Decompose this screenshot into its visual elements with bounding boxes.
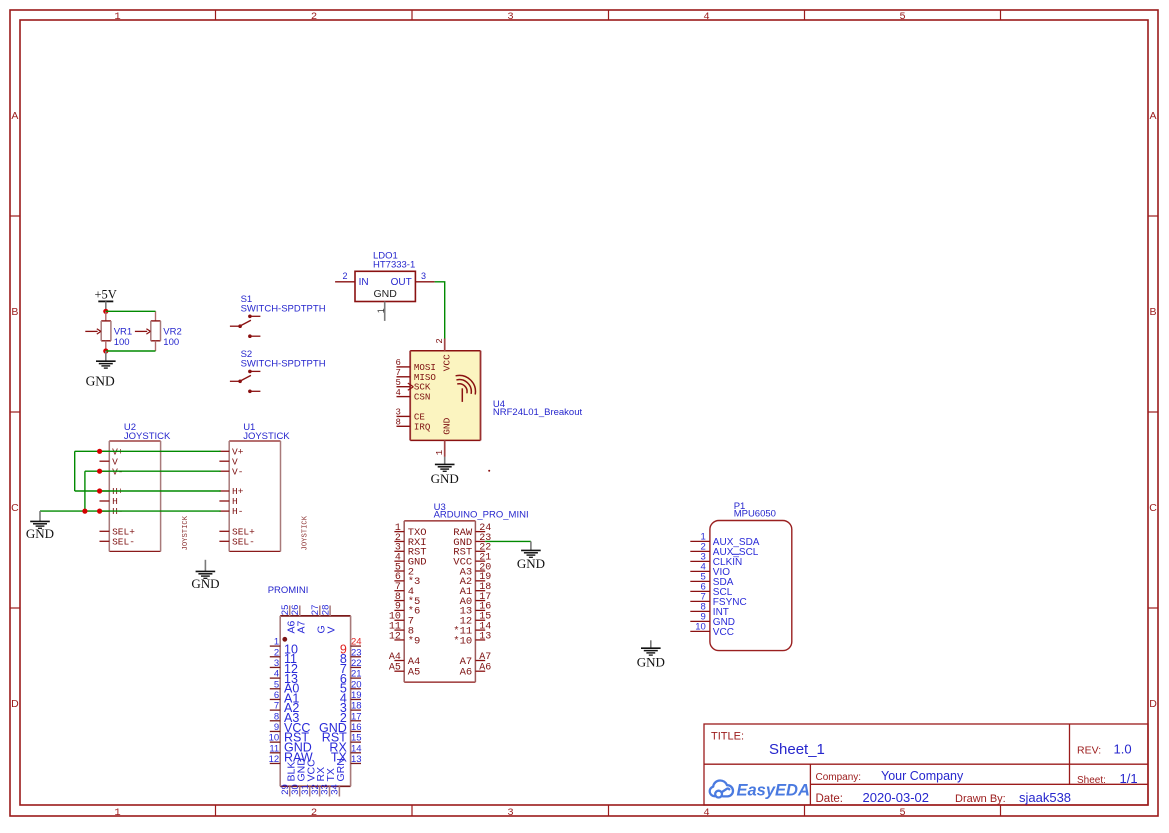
svg-text:V-: V-	[232, 466, 243, 477]
wire VR bottom	[106, 350, 156, 352]
pin 12 RAW (PROMINI left)	[270, 762, 280, 764]
wire LDO out to NRF VCC	[435, 282, 445, 339]
svg-text:14: 14	[351, 743, 362, 754]
pin V- of U2	[100, 470, 110, 472]
pin H of U1	[219, 500, 229, 502]
resistor VR1	[105, 311, 107, 321]
pin 3 12 (PROMINI left)	[270, 666, 280, 668]
svg-text:1.0: 1.0	[1114, 742, 1132, 757]
pin A6 A6 (U3 right)	[475, 670, 485, 672]
pin SEL- of U2	[100, 540, 110, 542]
pin 5 SDA (P1)	[690, 580, 710, 582]
svg-text:IN: IN	[359, 277, 369, 288]
svg-text:SWITCH-SPDTPTH: SWITCH-SPDTPTH	[241, 303, 326, 314]
svg-text:SWITCH-SPDTPTH: SWITCH-SPDTPTH	[241, 359, 326, 370]
svg-text:23: 23	[351, 647, 362, 658]
pin 7 MISO	[397, 376, 411, 378]
IC U4 NRF24L01_Breakout	[410, 351, 480, 441]
svg-text:sjaak538: sjaak538	[1019, 790, 1071, 805]
antenna symbol	[458, 384, 467, 393]
column/row ticks	[215, 10, 217, 20]
svg-text:A5: A5	[408, 667, 421, 679]
pin V+ of U1	[219, 450, 229, 452]
pin SEL+ of U2	[100, 530, 110, 532]
pin 15 RST (PROMINI right)	[351, 741, 361, 743]
wire to ground	[105, 351, 107, 361]
switch S1	[248, 315, 252, 319]
svg-text:*9: *9	[408, 635, 421, 647]
wire net V+	[75, 450, 221, 452]
wire net V-	[85, 470, 221, 472]
svg-text:GND: GND	[374, 288, 398, 300]
pin 18 A1 (U3 right)	[475, 590, 485, 592]
wire U3 pin23 to ground	[485, 540, 531, 542]
node junction VR1 top	[103, 309, 108, 314]
svg-text:4: 4	[395, 388, 400, 398]
pin 2 11 (PROMINI left)	[270, 656, 280, 658]
svg-text:7: 7	[274, 701, 279, 712]
pin 6 A1 (PROMINI left)	[270, 698, 280, 700]
pin V+ of U2	[100, 450, 110, 452]
pin 7 FSYNC (P1)	[690, 600, 710, 602]
svg-text:GND: GND	[191, 576, 219, 591]
svg-text:8: 8	[274, 711, 279, 722]
svg-text:2: 2	[342, 271, 347, 281]
pin SEL+ of U1	[219, 530, 229, 532]
svg-text:5: 5	[899, 807, 905, 819]
pin 6 SCL (P1)	[690, 590, 710, 592]
svg-text:GRN: GRN	[335, 758, 347, 781]
pin 4 GND (U3 left)	[394, 560, 404, 562]
connector P1 body	[710, 521, 792, 651]
wire net H+	[75, 490, 221, 492]
svg-text:13: 13	[351, 754, 362, 765]
switch S2	[248, 370, 252, 374]
pin 33 TX (PROMINI bottom)	[329, 786, 331, 796]
svg-text:3: 3	[274, 658, 279, 669]
pin 23 8 (PROMINI right)	[351, 656, 361, 658]
pin 11 8 (U3 left)	[394, 629, 404, 631]
svg-text:15: 15	[351, 733, 362, 744]
CLKIN overline	[733, 553, 740, 555]
pin 9 GND (P1)	[690, 620, 710, 622]
svg-text:IRQ: IRQ	[414, 421, 431, 432]
clock arrow SCK	[408, 383, 414, 387]
pin 1 GND bottom	[444, 440, 446, 457]
svg-text:2: 2	[435, 338, 445, 343]
svg-text:6: 6	[395, 358, 400, 368]
svg-text:Sheet:: Sheet:	[1077, 775, 1106, 786]
pin 22 7 (PROMINI right)	[351, 666, 361, 668]
svg-text:16: 16	[351, 722, 362, 733]
svg-text:18: 18	[351, 701, 362, 712]
svg-text:GND: GND	[86, 373, 115, 388]
wire net H- / GND	[40, 510, 221, 512]
pin 17 A0 (U3 right)	[475, 600, 485, 602]
pin 1 10 (PROMINI left)	[270, 645, 280, 647]
svg-text:1/1: 1/1	[1120, 771, 1138, 786]
pin 26 A7 (PROMINI top)	[299, 606, 301, 616]
ground	[521, 549, 541, 551]
node junction VR1 bottom	[103, 348, 108, 353]
connector U2 body	[109, 441, 160, 551]
svg-text:Company:: Company:	[816, 772, 862, 783]
svg-text:GND: GND	[442, 417, 453, 434]
pin 10 RST (PROMINI left)	[270, 741, 280, 743]
svg-text:5: 5	[899, 11, 905, 23]
svg-text:VCC: VCC	[713, 627, 734, 638]
pin 8 A3 (PROMINI left)	[270, 720, 280, 722]
svg-text:5: 5	[274, 679, 279, 690]
svg-text:10: 10	[695, 622, 706, 633]
svg-text:20: 20	[351, 679, 362, 690]
svg-text:B: B	[11, 306, 18, 318]
svg-text:2: 2	[274, 647, 279, 658]
pin 31 VCC (PROMINI bottom)	[309, 786, 311, 796]
regulator LDO1	[355, 271, 415, 301]
svg-text:7: 7	[395, 368, 400, 378]
svg-text:100: 100	[163, 337, 179, 348]
pin H- of U2	[100, 510, 110, 512]
pin 2 RXI (U3 left)	[394, 540, 404, 542]
pin 5 A0 (PROMINI left)	[270, 688, 280, 690]
svg-text:A7: A7	[295, 620, 307, 633]
svg-text:10: 10	[269, 733, 280, 744]
pin 9 VCC (PROMINI left)	[270, 730, 280, 732]
svg-text:C: C	[1149, 502, 1157, 514]
svg-text:28: 28	[320, 605, 331, 616]
pin 15 12 (U3 right)	[475, 619, 485, 621]
svg-text:A: A	[11, 110, 18, 122]
svg-text:12: 12	[389, 631, 401, 642]
pin H- of U1	[219, 510, 229, 512]
pin 7 4 (U3 left)	[394, 590, 404, 592]
pin 3 OUT	[415, 281, 434, 283]
pin 20 5 (PROMINI right)	[351, 688, 361, 690]
svg-text:A4: A4	[389, 652, 401, 663]
svg-text:A6: A6	[479, 663, 491, 674]
pin 5 SCK	[397, 386, 411, 388]
pin 32 RX (PROMINI bottom)	[319, 786, 321, 796]
pin 21 VCC (U3 right)	[475, 560, 485, 562]
pin 24 9 (PROMINI right)	[351, 645, 361, 647]
pin 19 A2 (U3 right)	[475, 580, 485, 582]
svg-text:GND: GND	[26, 526, 54, 541]
svg-text:1: 1	[435, 450, 445, 455]
svg-text:2: 2	[311, 11, 317, 23]
ground	[435, 463, 455, 465]
svg-text:SEL-: SEL-	[112, 536, 135, 547]
svg-text:EasyEDA: EasyEDA	[737, 782, 810, 800]
svg-text:A7: A7	[479, 652, 491, 663]
pin 12 *9 (U3 left)	[394, 639, 404, 641]
svg-text:4: 4	[703, 11, 709, 23]
svg-text:PROMINI: PROMINI	[268, 585, 309, 596]
svg-text:D: D	[1149, 698, 1157, 710]
wire to left ground	[39, 511, 41, 521]
pin 4 CSN	[397, 396, 411, 398]
svg-text:OUT: OUT	[391, 277, 412, 288]
pin SEL- of U1	[219, 540, 229, 542]
svg-text:C: C	[11, 502, 19, 514]
svg-text:NRF24L01_Breakout: NRF24L01_Breakout	[493, 407, 583, 418]
pin 29 BLK (PROMINI bottom)	[289, 786, 291, 796]
svg-text:21: 21	[351, 669, 362, 680]
svg-text:22: 22	[351, 658, 362, 669]
svg-text:JOYSTICK: JOYSTICK	[182, 515, 190, 550]
svg-text:17: 17	[351, 711, 362, 722]
pin 18 3 (PROMINI right)	[351, 709, 361, 711]
pin 8 *5 (U3 left)	[394, 600, 404, 602]
svg-text:3: 3	[507, 807, 513, 819]
ground	[196, 570, 216, 572]
svg-text:100: 100	[114, 337, 130, 348]
pin 10 VCC (P1)	[690, 630, 710, 632]
resistor VR2	[155, 311, 157, 321]
pin 10 7 (U3 left)	[394, 619, 404, 621]
svg-text:CSN: CSN	[414, 392, 431, 403]
pin 8 IRQ	[397, 425, 411, 427]
wire vertical V- to H-	[84, 471, 86, 511]
svg-text:1: 1	[274, 637, 279, 648]
pin A7 A7 (U3 right)	[475, 660, 485, 662]
svg-text:5: 5	[395, 378, 400, 388]
stray dot	[488, 470, 490, 472]
svg-text:*10: *10	[453, 635, 472, 647]
svg-text:HT7333-1: HT7333-1	[373, 260, 415, 271]
pin H of U2	[100, 500, 110, 502]
svg-text:Your Company: Your Company	[881, 769, 964, 783]
pin 23 GND (U3 right)	[475, 540, 485, 542]
pin 11 GND (PROMINI left)	[270, 752, 280, 754]
svg-text:1: 1	[114, 807, 120, 819]
pin H+ of U2	[100, 490, 110, 492]
svg-text:H-: H-	[232, 506, 243, 517]
junctions joystick	[97, 449, 102, 454]
svg-text:ARDUINO_PRO_MINI: ARDUINO_PRO_MINI	[434, 510, 529, 521]
connector U1 body	[229, 441, 280, 551]
svg-text:6: 6	[274, 690, 279, 701]
svg-text:D: D	[11, 698, 19, 710]
svg-text:12: 12	[269, 754, 280, 765]
pin 30 GND (PROMINI bottom)	[299, 786, 301, 796]
pin V of U1	[219, 460, 229, 462]
svg-text:4: 4	[703, 807, 709, 819]
pin 13 TX (PROMINI right)	[351, 762, 361, 764]
ground	[30, 520, 50, 522]
svg-text:8: 8	[395, 418, 400, 428]
pin 6 *3 (U3 left)	[394, 580, 404, 582]
svg-text:Drawn By:: Drawn By:	[955, 793, 1006, 805]
pin V of U2	[100, 460, 110, 462]
svg-text:Sheet_1: Sheet_1	[769, 741, 825, 758]
svg-text:11: 11	[269, 743, 279, 754]
pin 24 RAW (U3 right)	[475, 531, 485, 533]
module PROMINI body	[280, 616, 350, 786]
svg-text:B: B	[1149, 306, 1156, 318]
pin A5 A5 (U3 left)	[394, 670, 404, 672]
ground	[96, 360, 116, 362]
pin 25 A6 (PROMINI top)	[289, 606, 291, 616]
ground	[641, 647, 661, 649]
svg-text:3: 3	[507, 11, 513, 23]
pin 1 TXO (U3 left)	[394, 531, 404, 533]
svg-text:Date:: Date:	[816, 793, 844, 805]
svg-text:GND: GND	[517, 556, 545, 571]
pin 2 IN	[335, 281, 355, 283]
pin 4 VIO (P1)	[690, 570, 710, 572]
svg-text:MPU6050: MPU6050	[734, 509, 776, 520]
pin 2 AUX_SCL (P1)	[690, 550, 710, 552]
IC U3 body	[404, 521, 475, 682]
wire	[444, 457, 446, 464]
pin 19 4 (PROMINI right)	[351, 698, 361, 700]
pin 9 *6 (U3 left)	[394, 609, 404, 611]
pin 2 VCC top	[444, 339, 446, 351]
pin V- of U1	[219, 470, 229, 472]
svg-text:26: 26	[290, 605, 301, 616]
pin 16 GND (PROMINI right)	[351, 730, 361, 732]
pin 20 A3 (U3 right)	[475, 570, 485, 572]
pin 14 *11 (U3 right)	[475, 629, 485, 631]
pin 13 *10 (U3 right)	[475, 639, 485, 641]
svg-text:REV:: REV:	[1077, 745, 1101, 757]
svg-text:13: 13	[479, 631, 491, 642]
pin 5 2 (U3 left)	[394, 570, 404, 572]
wire	[105, 301, 107, 311]
pin 6 MOSI	[397, 366, 411, 368]
floating ground between joysticks	[204, 560, 206, 572]
svg-text:V: V	[326, 626, 338, 633]
pin 3 CE	[397, 415, 411, 417]
pin A4 A4 (U3 left)	[394, 660, 404, 662]
svg-text:A6: A6	[460, 667, 473, 679]
svg-text:24: 24	[351, 637, 362, 648]
pin1 marker dot	[282, 637, 287, 642]
svg-text:VCC: VCC	[442, 354, 453, 371]
pin H+ of U1	[219, 490, 229, 492]
title block	[704, 724, 1148, 805]
pin 34 GRN (PROMINI bottom)	[338, 786, 340, 796]
svg-text:19: 19	[351, 690, 362, 701]
svg-text:SEL-: SEL-	[232, 536, 255, 547]
svg-text:3: 3	[421, 271, 426, 281]
svg-text:A: A	[1149, 110, 1156, 122]
svg-text:1: 1	[376, 308, 386, 313]
pin 8 INT (P1)	[690, 610, 710, 612]
svg-text:JOYSTICK: JOYSTICK	[302, 515, 310, 550]
svg-text:1: 1	[114, 11, 120, 23]
svg-text:3: 3	[395, 408, 400, 418]
svg-text:TITLE:: TITLE:	[711, 731, 744, 743]
svg-text:+5V: +5V	[95, 288, 117, 302]
svg-text:2: 2	[311, 807, 317, 819]
wire vertical V+ to H+	[74, 451, 76, 491]
wire VR top	[106, 310, 156, 312]
pin 3 RST (U3 left)	[394, 550, 404, 552]
pin 4 13 (PROMINI left)	[270, 677, 280, 679]
svg-text:GND: GND	[431, 471, 459, 486]
pin 14 RX (PROMINI right)	[351, 752, 361, 754]
svg-text:9: 9	[274, 722, 279, 733]
pin 27 G (PROMINI top)	[319, 606, 321, 616]
svg-text:GND: GND	[637, 654, 665, 669]
pin 21 6 (PROMINI right)	[351, 677, 361, 679]
pin 1 AUX_SDA (P1)	[690, 540, 710, 542]
pin 16 13 (U3 right)	[475, 609, 485, 611]
EasyEDA logo cloud	[710, 780, 733, 797]
pin 22 RST (U3 right)	[475, 550, 485, 552]
pin 3 CLKIN (P1)	[690, 560, 710, 562]
pin 17 2 (PROMINI right)	[351, 720, 361, 722]
svg-text:4: 4	[274, 669, 279, 680]
pin 28 V (PROMINI top)	[329, 606, 331, 616]
pin 7 A2 (PROMINI left)	[270, 709, 280, 711]
svg-text:2020-03-02: 2020-03-02	[863, 790, 930, 805]
svg-text:34: 34	[330, 784, 341, 795]
svg-text:A5: A5	[389, 663, 401, 674]
